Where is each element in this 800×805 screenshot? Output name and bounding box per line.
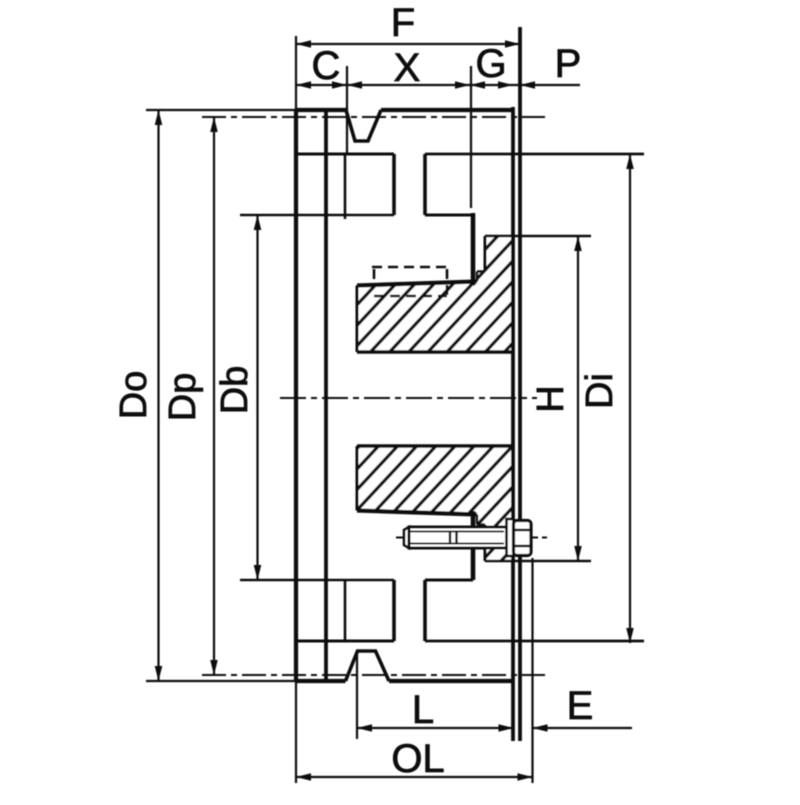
svg-text:C: C [312,44,341,88]
svg-text:H: H [530,385,572,412]
svg-text:Di: Di [579,373,621,409]
svg-text:G: G [475,42,506,86]
svg-text:X: X [394,46,421,90]
svg-text:L: L [412,688,434,732]
svg-text:Do: Do [113,371,155,420]
svg-text:OL: OL [391,737,444,781]
svg-text:E: E [567,684,594,728]
svg-text:Dp: Dp [162,373,204,422]
svg-text:P: P [555,42,582,86]
svg-text:F: F [391,1,415,45]
svg-text:Db: Db [214,366,256,415]
